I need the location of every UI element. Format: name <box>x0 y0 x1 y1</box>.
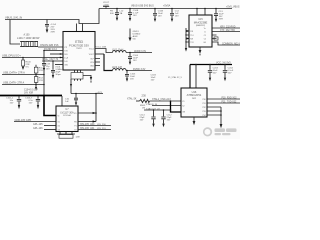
wire 3V3 horizontal <box>71 93 103 95</box>
mcu U16 AT89C2051 box <box>181 88 207 117</box>
svg-text:+5VD: +5VD <box>103 5 109 7</box>
title U7 <box>60 108 74 117</box>
wire XTALOUT <box>144 109 171 111</box>
op-amp U1 main IC PCM2702 <box>63 32 95 71</box>
capacitor C101 on gnd rail <box>17 96 21 109</box>
value C113 <box>140 114 146 121</box>
svg-text:XTAL1_OSC-A1X: XTAL1_OSC-A1X <box>152 98 171 101</box>
value C203 <box>213 67 219 74</box>
transceiver U15 MAX232 box <box>189 8 212 47</box>
title IC1 <box>69 40 89 50</box>
svg-text:1uF: 1uF <box>65 101 69 103</box>
regulator U7 LV1117 box <box>56 106 78 132</box>
wire vertical x44 to gnd rail <box>43 66 45 96</box>
wire U7 left pin row3 <box>44 125 56 127</box>
capacitor C107 on 3V3 <box>74 94 78 106</box>
svg-text:USB_DATA- 27R A: USB_DATA- 27R A <box>3 82 24 85</box>
svg-text:VCCL 1DB: VCCL 1DB <box>96 47 107 49</box>
svg-text:VOUT: VOUT <box>89 54 95 56</box>
svg-text:16V: 16V <box>46 68 50 70</box>
svg-text:C2: C2 <box>204 38 206 40</box>
wire U16 right pin P31 <box>207 102 240 104</box>
svg-text:X5R: X5R <box>51 32 56 34</box>
wire USB D+ long <box>2 57 63 59</box>
svg-text:P31: P31 <box>202 103 205 105</box>
svg-text:XRX_232-RXD: XRX_232-RXD <box>220 26 236 28</box>
capacitor C112 <box>161 109 165 127</box>
wire U15 right pin RXD <box>212 27 240 29</box>
value C11B <box>158 10 164 17</box>
value C105 <box>130 73 136 80</box>
value R503 <box>140 105 146 110</box>
svg-text:AVDD 3.3V: AVDD 3.3V <box>134 50 146 53</box>
pin labels U16 <box>182 99 205 117</box>
capacitor C106 on gnd rail <box>36 96 40 109</box>
wire USB DATA- <box>2 84 44 86</box>
svg-text:USB_DPLUS D+: USB_DPLUS D+ <box>2 55 21 58</box>
svg-text:230: 230 <box>142 93 147 97</box>
svg-text:XTO: XTO <box>64 50 68 52</box>
value C11B float <box>151 74 157 81</box>
pin labels U7 inside <box>58 113 78 132</box>
svg-text:12M: 12M <box>76 136 80 138</box>
svg-text:P30_RXD-X32: P30_RXD-X32 <box>222 97 238 99</box>
svg-text:COMMON_ADJ-XXX: COMMON_ADJ-XXX <box>222 42 240 45</box>
svg-text:1M: 1M <box>142 108 145 110</box>
svg-text:X1: X1 <box>182 101 184 103</box>
svg-text:30pm: 30pm <box>55 74 61 76</box>
wire IC1 left pin y61 <box>42 60 63 62</box>
svg-text:16V: 16V <box>140 119 144 121</box>
svg-text:P30: P30 <box>202 99 205 101</box>
svg-text:XTAL_OUT 70: XTAL_OUT 70 <box>42 58 59 61</box>
wire IC1 right short stubs <box>95 59 100 66</box>
svg-text:L102 1uH: L102 1uH <box>112 67 122 69</box>
wire U15 left bus <box>185 28 189 52</box>
svg-text:+3V3: +3V3 <box>97 92 103 94</box>
svg-text:X2: X2 <box>182 105 184 107</box>
svg-text:P34: P34 <box>202 115 205 117</box>
capacitor C13 with ground <box>214 8 218 23</box>
svg-text:XTI: XTI <box>64 47 67 49</box>
svg-text:VBUS-USB 5V0 BUS: VBUS-USB 5V0 BUS <box>131 4 154 7</box>
wire +5V top rail <box>99 8 232 10</box>
svg-text:XTALIN_30: XTALIN_30 <box>146 103 158 106</box>
wire IC1 right pin AVDD route <box>95 49 113 53</box>
wire vertical x96 to U7 <box>95 94 97 122</box>
svg-text:XIN_P01: XIN_P01 <box>97 128 107 130</box>
svg-text:16V: 16V <box>29 102 33 104</box>
svg-text:XIN_P00: XIN_P00 <box>97 124 107 126</box>
resistor R102 vertical <box>34 75 38 85</box>
resistor R100 vertical <box>22 58 25 71</box>
ground arrow right of J1 <box>83 76 92 83</box>
svg-text:T1O: T1O <box>190 35 194 37</box>
wire U16 right pins to gnd bus <box>207 107 222 128</box>
capacitor C100 top-left <box>45 20 49 34</box>
wire USB DATA+ <box>2 74 44 76</box>
svg-text:V+: V+ <box>204 28 206 30</box>
value C204 <box>228 67 234 74</box>
wire XTAL1 <box>152 105 181 107</box>
wire IC1 left pin y64.5 <box>55 64 63 66</box>
svg-text:27R: 27R <box>39 80 43 82</box>
wire U7 right pin out2 <box>78 129 111 131</box>
value C106 rail <box>25 97 34 104</box>
wire heavy VCC right net <box>190 64 232 88</box>
wire U7 right pin to x96 <box>78 112 97 114</box>
svg-text:16V: 16V <box>130 78 134 80</box>
svg-text:16V: 16V <box>151 79 155 81</box>
value RN100 <box>17 33 40 40</box>
value C102 <box>39 67 44 82</box>
svg-text:DVDD 3.3V: DVDD 3.3V <box>133 68 146 71</box>
svg-text:TE2X: TE2X <box>76 48 82 50</box>
watermark logo <box>203 127 237 136</box>
svg-text:VBUS_5V0_IN: VBUS_5V0_IN <box>5 16 22 20</box>
capacitor C11B with ground <box>153 8 157 22</box>
inductor L101 <box>113 51 153 53</box>
svg-text:G2: G2 <box>58 125 60 127</box>
title U15 <box>194 19 208 27</box>
svg-text:(MAX232): (MAX232) <box>196 24 205 27</box>
value C104-5 above rail <box>24 90 39 95</box>
svg-text:G3: G3 <box>58 129 60 131</box>
value C101 <box>46 63 51 70</box>
svg-text:3V3 1A0: 3V3 1A0 <box>63 114 72 117</box>
wire IC1 left pin y50.5 <box>44 50 63 52</box>
wire XTAL2 with resistor R230 <box>136 99 181 102</box>
wire U7 right pin out1 <box>78 125 111 127</box>
svg-text:16V: 16V <box>213 72 217 74</box>
node U7 right label row4 <box>80 127 107 130</box>
resistor network RN100 <box>20 42 38 47</box>
wire IC1 right pin DVDD route <box>95 53 104 55</box>
capacitor C203 <box>208 64 212 81</box>
value C10A <box>110 11 124 16</box>
wire U15 right short stubs <box>212 35 218 40</box>
svg-text:C1: C1 <box>204 35 206 37</box>
svg-text:DGND 16.2: DGND 16.2 <box>44 48 58 51</box>
resistor R101 vertical <box>34 65 38 75</box>
svg-text:A 100: A 100 <box>24 33 31 36</box>
svg-text:AT89C2051: AT89C2051 <box>187 93 202 97</box>
wire IC1 left pin y54 <box>50 53 63 55</box>
capacitor C204 <box>223 64 227 81</box>
svg-text:GND-105 GPD: GND-105 GPD <box>15 119 32 122</box>
value C100 <box>51 24 57 34</box>
svg-text:R1I: R1I <box>190 31 193 33</box>
svg-text:+5V0A: +5V0A <box>163 4 171 7</box>
svg-text:P1: P1 <box>74 125 76 127</box>
svg-text:GPL-106: GPL-106 <box>33 127 43 130</box>
svg-text:XTX_232-TXD: XTX_232-TXD <box>220 30 235 32</box>
wire heavy gnd to U7 <box>44 96 56 116</box>
connector J1 under IC1 <box>71 70 83 81</box>
wire U7 right pin loop <box>78 120 96 122</box>
pin numbers IC1 right <box>89 48 95 67</box>
svg-text:PCM2702E 53X: PCM2702E 53X <box>69 44 89 48</box>
svg-text:P31_TXD-X32: P31_TXD-X32 <box>222 101 238 103</box>
capacitor C105 under DVDD <box>125 70 129 82</box>
value C104 <box>133 55 139 62</box>
title U16 <box>187 90 202 100</box>
ground U16 bottom <box>193 117 196 125</box>
wire U7 top pin <box>61 96 63 106</box>
svg-text:16V: 16V <box>133 15 137 17</box>
wire U16 right pin P30 <box>207 98 240 100</box>
svg-text:GPL-105: GPL-105 <box>33 123 43 126</box>
wire vertical from VBUS to resistor network <box>10 20 20 45</box>
svg-text:L101 10uH: L101 10uH <box>112 49 124 51</box>
svg-text:XIN-106_A01: XIN-106_A01 <box>80 127 95 130</box>
capacitor C10B with ground <box>128 8 132 22</box>
value C101 rail <box>6 97 14 104</box>
svg-text:P2: P2 <box>74 129 76 131</box>
value C112 <box>167 114 173 121</box>
wire OSCIN to IC1 pin <box>38 46 63 48</box>
svg-text:GD: GD <box>133 38 137 40</box>
svg-text:GN2: GN2 <box>90 65 94 67</box>
crystal X101 under pin y61 <box>51 60 55 78</box>
capacitor C104 under AVDD <box>128 52 132 65</box>
svg-text:5%: 5% <box>26 66 29 68</box>
wire heavy to U6 <box>170 100 181 112</box>
diode D1 drop at x130 <box>129 29 132 42</box>
svg-text:GN1: GN1 <box>64 64 68 66</box>
value C13 <box>219 11 225 21</box>
svg-text:VCC_XX-3V3: VCC_XX-3V3 <box>216 62 231 65</box>
capacitor C10A with ground <box>115 8 119 21</box>
svg-text:16V: 16V <box>133 60 137 62</box>
power flag VOUT <box>103 5 109 8</box>
svg-text:L100-7 100R 4RXW: L100-7 100R 4RXW <box>17 37 40 40</box>
svg-text:P33: P33 <box>202 111 205 113</box>
wire IC1 top pin stubs <box>77 24 83 32</box>
wire J1 left to 3V3 rail <box>70 79 72 94</box>
inductor L102 <box>113 69 153 71</box>
svg-text:16V: 16V <box>158 15 162 17</box>
capacitor C12 with ground <box>170 8 174 22</box>
capacitor C101 under pin y50.5 <box>42 50 46 72</box>
svg-text:16V: 16V <box>167 119 171 121</box>
svg-text:G1: G1 <box>58 121 60 123</box>
svg-text:LV1117-30A: LV1117-30A <box>60 111 74 114</box>
svg-text:VCC1: VCC1 <box>89 48 94 50</box>
wire U7 left pin row4 <box>44 129 56 131</box>
wire U15 right pin TXD <box>212 31 240 33</box>
crystal Y1 under U7 <box>57 132 75 139</box>
value C10B <box>133 10 139 17</box>
svg-text:USB_DATA+ 27R A: USB_DATA+ 27R A <box>3 72 25 75</box>
svg-text:R2I: R2I <box>190 38 193 40</box>
svg-text:XTAL-2K: XTAL-2K <box>127 98 137 101</box>
svg-text:16V X5R: 16V X5R <box>24 93 34 95</box>
capacitor C113 <box>151 109 155 127</box>
pin labels U15 inside <box>190 28 206 44</box>
pin numbers IC1 left <box>64 47 68 67</box>
node U7 right label row3 <box>80 123 107 126</box>
wire GND rail heavy <box>0 95 62 97</box>
svg-text:T2O: T2O <box>190 42 194 44</box>
node VOUT power label <box>103 2 110 7</box>
svg-text:X1_XTAL X2_X: X1_XTAL X2_X <box>168 76 182 79</box>
svg-text:24PI: 24PI <box>192 98 197 100</box>
svg-text:XTALOUT_2X: XTALOUT_2X <box>146 107 160 110</box>
svg-text:+5V0_VBUS: +5V0_VBUS <box>226 6 240 9</box>
svg-text:C104-5 0.1uF: C104-5 0.1uF <box>24 90 39 92</box>
svg-text:OSCIN 22R P16: OSCIN 22R P16 <box>40 44 59 47</box>
ground stub under DATA- <box>35 84 37 91</box>
svg-text:P32: P32 <box>202 107 205 109</box>
svg-text:X5R: X5R <box>219 18 224 20</box>
wire VBUS top-left net <box>5 9 99 24</box>
svg-text:16V: 16V <box>10 102 14 104</box>
svg-text:27R: 27R <box>39 70 43 72</box>
value C12 <box>175 10 180 17</box>
svg-text:16V: 16V <box>228 72 232 74</box>
value C107 labels <box>65 98 70 103</box>
ground U15 bottom <box>199 47 202 55</box>
wire U15 right pin common <box>212 42 240 45</box>
svg-text:XIN-105_A00: XIN-105_A00 <box>80 123 95 126</box>
svg-text:16V: 16V <box>175 15 179 17</box>
value D1 <box>133 31 141 41</box>
svg-text:MAX3238E: MAX3238E <box>194 20 208 24</box>
value X101 <box>55 67 62 77</box>
wire U7 left pin row2 <box>14 121 56 123</box>
value R100 <box>26 61 32 68</box>
